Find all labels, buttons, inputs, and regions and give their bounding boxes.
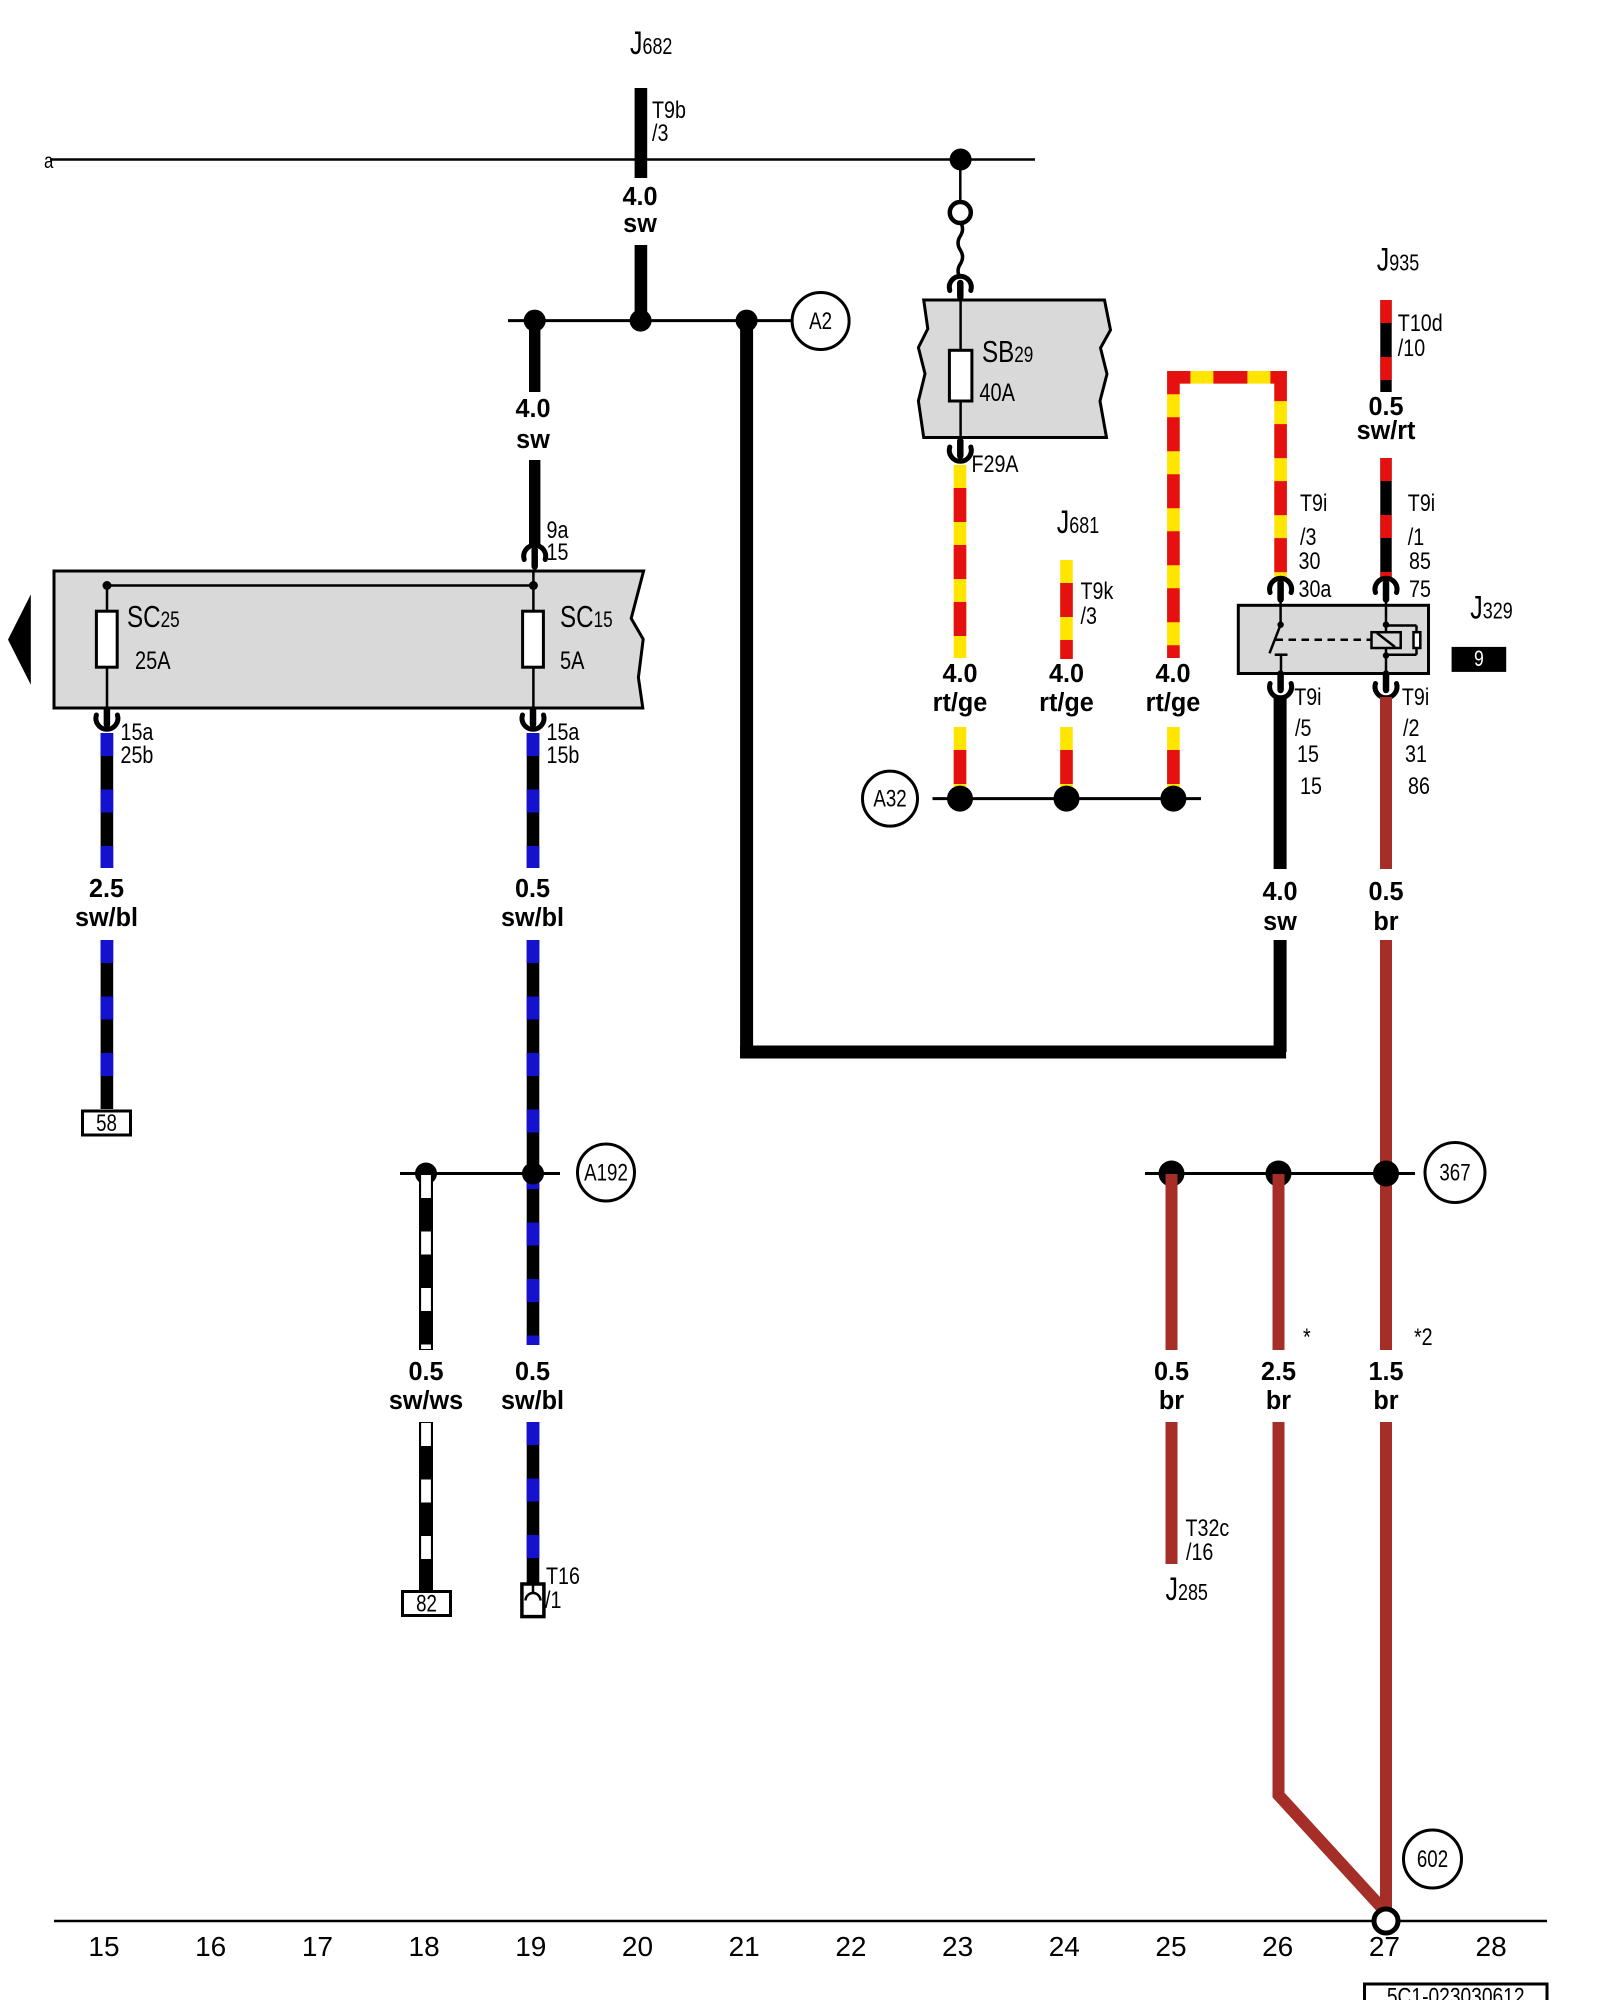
svg-text:0.5: 0.5 xyxy=(1154,1358,1189,1386)
fuse SB29 xyxy=(949,350,972,401)
svg-text:15b: 15b xyxy=(547,741,580,768)
fuse SC15 xyxy=(532,571,535,708)
svg-text:2.5: 2.5 xyxy=(89,875,124,903)
svg-text:4.0: 4.0 xyxy=(515,395,550,423)
svg-text:F29A: F29A xyxy=(972,450,1019,477)
junction xyxy=(947,786,973,812)
svg-text:/5: /5 xyxy=(1295,714,1311,741)
svg-text:58: 58 xyxy=(96,1110,117,1137)
svg-text:25: 25 xyxy=(1155,1931,1186,1962)
svg-text:15: 15 xyxy=(1300,772,1322,799)
node A32 circle xyxy=(863,771,918,826)
wire 4.0 rt/ge (lower segment to A32) xyxy=(1060,727,1073,798)
svg-text:sw: sw xyxy=(516,426,550,454)
svg-text:21: 21 xyxy=(729,1931,760,1962)
bolt connection (open circle) xyxy=(950,202,971,223)
wire 4.0 sw from A2 bus to SC panel xyxy=(529,320,540,392)
wire sw thick up to relay pin 15 xyxy=(1274,940,1287,1052)
bottom scale line xyxy=(54,1920,1547,1923)
svg-text:31: 31 xyxy=(1405,740,1427,767)
wire sw thick from A2 bus down (vertical x=746) xyxy=(740,320,753,1058)
connector on relay pin 85/75 xyxy=(1375,578,1397,605)
svg-text:22: 22 xyxy=(835,1931,866,1962)
svg-text:br: br xyxy=(1159,1387,1184,1415)
wire sw thick horizontal elbow y=1052 xyxy=(740,1046,1286,1059)
wire 4.0 rt/ge (lower segment to A32) xyxy=(954,727,967,798)
svg-text:40A: 40A xyxy=(979,379,1015,407)
SC fuse panel xyxy=(54,571,644,708)
drawing number box xyxy=(1365,1984,1548,2000)
node A192 bus xyxy=(400,1172,560,1175)
svg-text:T9i: T9i xyxy=(1408,489,1435,516)
svg-text:15: 15 xyxy=(1297,740,1319,767)
svg-text:0.5: 0.5 xyxy=(1368,878,1403,906)
svg-text:A192: A192 xyxy=(584,1159,628,1186)
relay J329 box xyxy=(1238,605,1428,673)
internal rail of SC panel xyxy=(107,584,533,587)
node a : horizontal rail xyxy=(50,158,1035,161)
svg-text:23: 23 xyxy=(942,1931,973,1962)
wire 0.5 br below 367 xyxy=(1166,1174,1178,1350)
svg-text:/10: /10 xyxy=(1398,334,1425,361)
connector T16/1 xyxy=(522,1562,580,1616)
svg-text:/3: /3 xyxy=(1081,602,1097,629)
svg-text:T9i: T9i xyxy=(1300,489,1327,516)
junction xyxy=(1373,1161,1399,1187)
svg-text:24: 24 xyxy=(1049,1931,1080,1962)
wire 0.5 sw/ws (upper segment) xyxy=(419,1174,433,1350)
connector F29A under SB29 xyxy=(949,441,1019,477)
connector on relay pin 30/30a xyxy=(1270,578,1292,605)
svg-text:/16: /16 xyxy=(1186,1538,1213,1565)
relay actuation dashed line xyxy=(1276,638,1372,641)
wire 0.5 sw/bl (lower segment) xyxy=(527,1422,540,1584)
svg-text:15: 15 xyxy=(88,1931,119,1962)
connector T9k/3 wire rt/ge xyxy=(1060,560,1073,659)
svg-text:a: a xyxy=(44,150,54,173)
wire 0.5 sw/bl (upper segment) xyxy=(527,733,540,868)
svg-text:/1: /1 xyxy=(545,1586,561,1613)
wire 4.0 rt/ge (lower segment to A32) xyxy=(1167,727,1180,798)
junction xyxy=(630,310,652,332)
wire br through node 367 xyxy=(1380,940,1392,1350)
junction xyxy=(1054,786,1080,812)
svg-text:367: 367 xyxy=(1439,1159,1470,1186)
node A192 circle xyxy=(578,1144,635,1201)
terminal 58 box xyxy=(83,1111,131,1135)
svg-text:br: br xyxy=(1373,1387,1398,1415)
svg-text:sw/bl: sw/bl xyxy=(75,904,138,932)
svg-text:T9i: T9i xyxy=(1294,683,1321,710)
relay switch contact xyxy=(1270,605,1288,673)
junction xyxy=(1160,786,1186,812)
svg-text:27: 27 xyxy=(1369,1931,1400,1962)
node A2 bus xyxy=(508,319,791,322)
svg-text:4.0: 4.0 xyxy=(942,660,977,688)
svg-text:20: 20 xyxy=(622,1931,653,1962)
svg-text:25b: 25b xyxy=(121,741,154,768)
wire 2.5 br below 367 xyxy=(1273,1174,1285,1350)
svg-text:0.5: 0.5 xyxy=(408,1358,443,1386)
svg-text:rt/ge: rt/ge xyxy=(1039,689,1094,717)
wire 2.5 br lower + diagonal to ground point xyxy=(1279,1422,1383,1908)
SB29 fuse panel xyxy=(918,300,1110,438)
svg-text:*2: *2 xyxy=(1414,1323,1433,1350)
svg-text:28: 28 xyxy=(1476,1931,1507,1962)
svg-text:17: 17 xyxy=(302,1931,333,1962)
svg-text:T9i: T9i xyxy=(1402,683,1429,710)
wire 0.5 br from relay pin 86 down xyxy=(1380,697,1392,869)
svg-text:4.0: 4.0 xyxy=(1049,660,1084,688)
wire 0.5 sw/rt to relay pin 85 xyxy=(1380,458,1391,581)
svg-text:/2: /2 xyxy=(1403,714,1419,741)
svg-text:9: 9 xyxy=(1474,647,1484,671)
svg-text:br: br xyxy=(1266,1387,1291,1415)
svg-text:sw: sw xyxy=(1263,908,1297,936)
svg-text:A32: A32 xyxy=(873,785,906,812)
wire 4.0 rt/ge from F29A (upper segment) xyxy=(954,465,967,658)
svg-text:30: 30 xyxy=(1299,547,1321,574)
svg-text:15: 15 xyxy=(547,538,569,565)
svg-text:sw: sw xyxy=(623,210,657,238)
svg-text:T9k: T9k xyxy=(1081,577,1114,604)
svg-text:1.5: 1.5 xyxy=(1368,1358,1403,1386)
svg-text:30a: 30a xyxy=(1299,575,1333,602)
svg-text:sw/ws: sw/ws xyxy=(389,1387,463,1415)
wire 2.5 sw/bl (lower segment) xyxy=(101,940,114,1109)
svg-text:/3: /3 xyxy=(652,119,668,146)
J329 current track tag (black box 9) xyxy=(1452,647,1507,672)
connector on relay pin T9i/5 xyxy=(1270,674,1292,698)
junction xyxy=(524,310,546,332)
svg-text:18: 18 xyxy=(409,1931,440,1962)
svg-text:0.5: 0.5 xyxy=(515,875,550,903)
svg-text:T10d: T10d xyxy=(1398,309,1443,336)
svg-text:sw/bl: sw/bl xyxy=(501,1387,564,1415)
junction xyxy=(522,1163,544,1185)
connector T9b/3 (wire bar of J682) xyxy=(635,88,648,178)
svg-text:26: 26 xyxy=(1262,1931,1293,1962)
svg-text:16: 16 xyxy=(195,1931,226,1962)
svg-text:75: 75 xyxy=(1409,575,1431,602)
fuse SC25 xyxy=(106,586,109,709)
wire 0.5 sw/ws (lower segment) xyxy=(419,1422,433,1590)
arrow into SC panel xyxy=(8,594,31,684)
junction xyxy=(415,1163,437,1185)
junction xyxy=(1159,1161,1185,1187)
node A2 circle xyxy=(792,293,849,350)
svg-text:85: 85 xyxy=(1409,547,1431,574)
svg-text:82: 82 xyxy=(416,1590,437,1617)
connector T10d/10 wire 0.5 sw/rt xyxy=(1380,300,1391,392)
svg-text:A2: A2 xyxy=(809,308,832,335)
svg-text:4.0: 4.0 xyxy=(622,183,657,211)
svg-text:5C1-023030612: 5C1-023030612 xyxy=(1387,1982,1525,2000)
node A32 bus xyxy=(933,797,1202,800)
svg-text:br: br xyxy=(1373,908,1398,936)
svg-text:19: 19 xyxy=(515,1931,546,1962)
wavy wire to SB29 xyxy=(958,222,963,278)
junction on rail a xyxy=(950,149,972,171)
connector 15a/15b under SC15 xyxy=(522,710,580,768)
svg-text:sw/rt: sw/rt xyxy=(1357,417,1416,445)
internal line of SB29 xyxy=(959,297,962,441)
wire 4.0 rt/ge hat (from A32 up over to relay pin 30) xyxy=(1173,377,1280,658)
svg-text:2.5: 2.5 xyxy=(1261,1358,1296,1386)
svg-text:4.0: 4.0 xyxy=(1155,660,1190,688)
junction xyxy=(1266,1161,1292,1187)
svg-text:86: 86 xyxy=(1408,772,1430,799)
connector on relay pin T9i/2 xyxy=(1375,674,1397,698)
relay coil xyxy=(1372,605,1421,673)
connector 15a/25b under SC25 xyxy=(96,710,154,768)
svg-text:5A: 5A xyxy=(560,647,585,675)
svg-text:602: 602 xyxy=(1417,1846,1448,1873)
wire 2.5 sw/bl (upper segment) xyxy=(101,733,114,868)
svg-text:rt/ge: rt/ge xyxy=(1146,689,1201,717)
connector 9a/15 on SC panel xyxy=(524,516,569,572)
node 602 circle xyxy=(1404,1830,1462,1888)
junction xyxy=(736,310,758,332)
wire from rail a to bolt connection xyxy=(959,160,962,202)
svg-text:25A: 25A xyxy=(135,647,171,675)
ground point ring on scale line xyxy=(1374,1909,1398,1933)
node 367 bus xyxy=(1145,1172,1415,1175)
terminal 82 box xyxy=(403,1592,451,1616)
svg-text:sw/bl: sw/bl xyxy=(501,904,564,932)
svg-text:rt/ge: rt/ge xyxy=(933,689,988,717)
node 367 circle xyxy=(1425,1143,1485,1203)
svg-text:*: * xyxy=(1303,1323,1311,1350)
wire 0.5 sw/bl (middle segment through A192) xyxy=(527,940,540,1345)
connector on top of SB29 xyxy=(949,276,971,297)
wire 4.0 sw from relay pin 15 down xyxy=(1274,697,1287,869)
svg-text:0.5: 0.5 xyxy=(515,1358,550,1386)
svg-text:4.0: 4.0 xyxy=(1262,878,1297,906)
